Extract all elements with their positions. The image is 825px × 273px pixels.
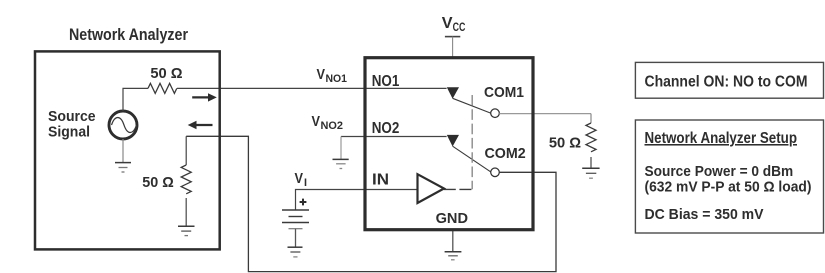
svg-text:NO1: NO1 xyxy=(372,73,400,90)
resistor R1 50 ohm (horizontal) xyxy=(148,83,177,93)
ground at NO2 xyxy=(333,137,349,169)
note box: Channel ON xyxy=(635,62,823,98)
svg-text:V: V xyxy=(442,15,453,32)
switch S2 blade to COM2 xyxy=(453,146,491,172)
buffer driver U1 xyxy=(418,174,445,203)
ground under battery xyxy=(288,229,303,257)
wire R1 to NO1 pin (net VNO1) xyxy=(177,87,447,89)
ground under R3 xyxy=(582,168,599,178)
wire NO2 pin to ground xyxy=(341,136,447,138)
resistor R2 50 ohm (vertical, in NA box) xyxy=(181,136,191,225)
svg-text:V: V xyxy=(295,171,304,187)
label: Source Signal xyxy=(48,108,96,141)
svg-text:V: V xyxy=(317,67,326,83)
svg-text:Source: Source xyxy=(48,108,96,125)
svg-text:50 Ω: 50 Ω xyxy=(150,65,182,82)
switch S1 blade to COM1 xyxy=(453,98,491,113)
svg-text:DC Bias = 350 mV: DC Bias = 350 mV xyxy=(645,206,764,223)
VCC power symbol xyxy=(445,37,460,58)
svg-text:CC: CC xyxy=(453,22,466,34)
svg-text:(632 mV P-P at 50 Ω load): (632 mV P-P at 50 Ω load) xyxy=(645,179,812,196)
Network Analyzer box xyxy=(35,51,220,249)
svg-text:V: V xyxy=(312,114,321,130)
svg-text:Network Analyzer Setup: Network Analyzer Setup xyxy=(645,130,798,147)
svg-text:COM1: COM1 xyxy=(484,84,524,101)
node label VNO1 xyxy=(317,67,348,85)
svg-text:GND: GND xyxy=(436,210,469,227)
switch S1 contact circle COM1 xyxy=(491,109,500,118)
VCC label xyxy=(442,15,466,34)
ground under R2 xyxy=(178,226,195,235)
wire COM1 to R3 xyxy=(499,113,591,115)
svg-text:Source Power = 0 dBm: Source Power = 0 dBm xyxy=(645,163,794,180)
svg-text:Channel ON: NO to COM: Channel ON: NO to COM xyxy=(645,74,808,91)
svg-text:NO2: NO2 xyxy=(372,120,400,137)
node label VI xyxy=(295,171,308,189)
svg-text:IN: IN xyxy=(372,172,389,189)
dashed control link vertical xyxy=(471,95,473,189)
svg-text:COM2: COM2 xyxy=(485,145,526,162)
ground at GND pin xyxy=(445,230,462,260)
svg-text:I: I xyxy=(304,177,307,189)
node label VNO2 xyxy=(312,114,344,132)
svg-text:Network Analyzer: Network Analyzer xyxy=(69,26,188,44)
wire battery to IN pin xyxy=(296,190,418,210)
ground under source V1 xyxy=(115,139,131,172)
dashed link buffer to switches xyxy=(444,188,472,190)
battery VI plates xyxy=(282,210,309,229)
battery VI plus sign xyxy=(300,199,307,206)
arrow right annotation xyxy=(192,93,217,101)
svg-text:Signal: Signal xyxy=(48,124,90,141)
source V1 (sine source) xyxy=(109,111,137,139)
wire source to R1 xyxy=(123,88,148,111)
svg-text:50 Ω: 50 Ω xyxy=(142,174,174,191)
svg-text:50 Ω: 50 Ω xyxy=(549,135,581,152)
switch S2 triangle pole xyxy=(447,135,459,147)
note box: Network Analyzer Setup xyxy=(635,120,823,233)
wire COM2 return path (R2 top - down - bottom - up to COM2) xyxy=(186,136,556,271)
svg-text:NO1: NO1 xyxy=(326,73,348,85)
IC box U1 xyxy=(365,58,533,230)
switch S2 contact circle COM2 xyxy=(491,168,500,177)
svg-text:NO2: NO2 xyxy=(321,120,344,132)
switch S1 triangle pole xyxy=(447,87,459,99)
arrow left annotation xyxy=(188,121,213,129)
resistor R3 50 ohm (vertical, right) xyxy=(586,114,596,168)
